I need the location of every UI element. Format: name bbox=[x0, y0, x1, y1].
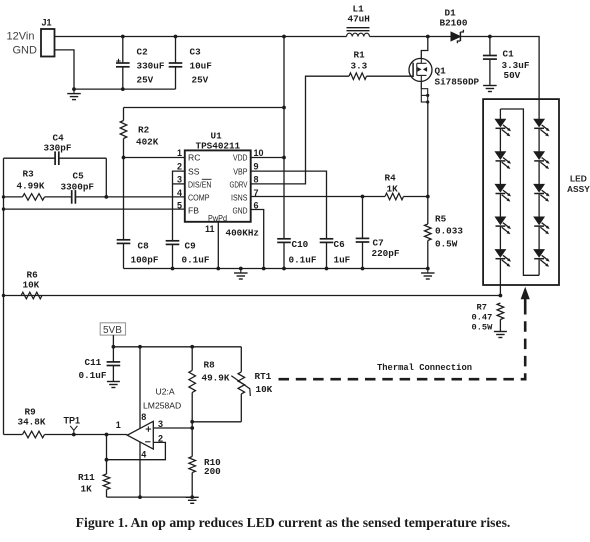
svg-text:GND: GND bbox=[233, 205, 248, 215]
wire input rail to VDD tap bbox=[123, 36, 284, 38]
capacitor C9 0.1uF bbox=[166, 240, 180, 242]
node R2 tap on VDD riser bbox=[282, 106, 286, 110]
wire L1 to Q1 drain node bbox=[370, 36, 428, 38]
ground at input bbox=[73, 89, 75, 94]
resistor R3 4.99K bbox=[4, 196, 23, 198]
svg-text:R1: R1 bbox=[354, 50, 366, 61]
svg-text:0.1uF: 0.1uF bbox=[79, 370, 107, 381]
thermistor RT1 10K bbox=[240, 347, 242, 372]
svg-text:C7: C7 bbox=[373, 238, 384, 249]
svg-text:C1: C1 bbox=[503, 49, 515, 60]
thermal connection dashed line bbox=[279, 312, 526, 379]
svg-text:C10: C10 bbox=[292, 239, 309, 250]
svg-text:25V: 25V bbox=[192, 75, 209, 86]
svg-text:9: 9 bbox=[254, 162, 259, 172]
capacitor C6 1uF bbox=[320, 238, 334, 240]
svg-text:1uF: 1uF bbox=[334, 255, 351, 266]
test point TP1 bbox=[72, 433, 76, 437]
svg-text:GND: GND bbox=[13, 45, 38, 57]
node R6 wire junction bbox=[2, 294, 5, 297]
svg-text:3: 3 bbox=[177, 175, 182, 185]
resistor R5 0.033 0.5W bbox=[425, 224, 432, 241]
resistor R8 49.9K bbox=[191, 347, 193, 371]
wire left column segment bbox=[499, 226, 501, 249]
svg-text:COMP: COMP bbox=[188, 193, 210, 203]
wire R3 to C5 bbox=[45, 196, 72, 198]
capacitor C2 (electrolytic) bbox=[116, 62, 130, 64]
capacitor C8 100pF bbox=[117, 239, 131, 241]
node R5/R4/Q1-source junction bbox=[426, 195, 430, 199]
svg-text:J1: J1 bbox=[42, 18, 52, 28]
svg-text:R2: R2 bbox=[138, 125, 150, 136]
resistor R4 1K bbox=[385, 193, 404, 200]
wire Q1 source to sense resistor bbox=[427, 102, 429, 224]
node R7/LED string junction bbox=[499, 294, 503, 298]
LED right column 3 bbox=[534, 184, 544, 192]
ground symbol under U1 bbox=[239, 267, 243, 271]
svg-text:LM258AD: LM258AD bbox=[143, 401, 181, 411]
capacitor C1 3.3uF 50V bbox=[489, 37, 491, 56]
wire FB sense line (R6 net) to LED cathode node bbox=[4, 295, 501, 297]
wire COMP line to U1 pin 4 bbox=[106, 196, 185, 198]
wire right column bottom to return loop bbox=[538, 259, 540, 276]
wire left column exit to R7 bbox=[499, 259, 501, 296]
svg-text:VDD: VDD bbox=[233, 153, 248, 163]
svg-text:1: 1 bbox=[177, 148, 182, 158]
svg-text:0.47: 0.47 bbox=[472, 313, 493, 323]
svg-text:RC: RC bbox=[188, 153, 200, 163]
wire op-amp pin 2 feedback loop bbox=[107, 442, 166, 459]
svg-text:1: 1 bbox=[116, 420, 121, 430]
wire Q1 drain to rail node bbox=[421, 37, 428, 59]
svg-text:Si7850DP: Si7850DP bbox=[435, 77, 480, 88]
node COMP network junction bbox=[104, 195, 108, 199]
svg-text:C2: C2 bbox=[137, 47, 149, 58]
svg-text:R8: R8 bbox=[204, 360, 216, 371]
LED left column 2 bbox=[495, 152, 505, 160]
label 5VB supply bbox=[100, 323, 125, 335]
LED right column 5 bbox=[534, 250, 544, 258]
wire op-amp output pin 1 bbox=[107, 434, 128, 436]
svg-text:0.033: 0.033 bbox=[435, 226, 463, 237]
ground rail under U1 bbox=[124, 268, 428, 270]
wire left column segment bbox=[499, 128, 501, 151]
wire LED return loop bbox=[500, 109, 539, 275]
svg-text:12Vin: 12Vin bbox=[7, 31, 35, 43]
LED left column 5 bbox=[495, 250, 505, 258]
wire ISNS pin 7 line bbox=[251, 196, 363, 198]
wire R2 to RC pin bbox=[123, 139, 125, 158]
wire VDD riser to pin 10 bbox=[283, 108, 285, 158]
resistor R10 200 bbox=[191, 428, 193, 457]
svg-text:0.5W: 0.5W bbox=[472, 323, 494, 333]
node op-amp V+ tap bbox=[138, 345, 142, 349]
svg-text:U2:A: U2:A bbox=[156, 387, 175, 397]
svg-text:49.9K: 49.9K bbox=[202, 373, 230, 384]
wire PwPd pin 11 to ground rail bbox=[217, 222, 219, 269]
svg-text:330uF: 330uF bbox=[137, 61, 165, 72]
svg-text:ISNS: ISNS bbox=[231, 193, 248, 203]
wire op-amp pin 8 supply bbox=[139, 347, 141, 429]
svg-text:3: 3 bbox=[158, 419, 163, 429]
svg-text:C5: C5 bbox=[73, 171, 85, 182]
wire left column segment bbox=[499, 161, 501, 184]
wire R8 node to op-amp + input node bbox=[191, 422, 193, 428]
node C1/output junction bbox=[488, 35, 492, 39]
node Q1-drain/L1/D1 junction bbox=[426, 35, 430, 39]
svg-text:220pF: 220pF bbox=[372, 248, 400, 259]
wire right LED string feed bbox=[538, 99, 540, 119]
svg-text:100pF: 100pF bbox=[131, 255, 159, 266]
svg-text:10: 10 bbox=[254, 148, 264, 158]
wire right column segment bbox=[538, 128, 540, 151]
LED left column 4 bbox=[495, 217, 505, 225]
ground symbol under R5 bbox=[427, 269, 429, 274]
wire input rail to L1 bbox=[284, 36, 347, 38]
LED assembly box bbox=[483, 99, 559, 285]
diode D1 (schottky B2100) bbox=[451, 32, 460, 41]
svg-text:SS: SS bbox=[188, 166, 200, 176]
svg-text:1K: 1K bbox=[387, 184, 399, 195]
svg-text:TP1: TP1 bbox=[64, 416, 81, 426]
svg-text:ASSY: ASSY bbox=[567, 184, 590, 194]
svg-text:C11: C11 bbox=[85, 357, 102, 368]
svg-text:4: 4 bbox=[141, 450, 146, 460]
svg-text:FB: FB bbox=[188, 205, 199, 215]
svg-text:C6: C6 bbox=[334, 239, 346, 250]
svg-text:4.99K: 4.99K bbox=[17, 181, 45, 192]
svg-text:C8: C8 bbox=[138, 241, 150, 252]
svg-text:R4: R4 bbox=[385, 173, 397, 184]
svg-text:3.3: 3.3 bbox=[351, 61, 368, 72]
LED right column 2 bbox=[534, 152, 544, 160]
svg-text:5VB: 5VB bbox=[103, 325, 122, 336]
svg-text:402K: 402K bbox=[136, 137, 159, 148]
ground under R10 bbox=[190, 495, 194, 499]
wire drain node to D1 anode bbox=[428, 36, 451, 38]
wire VBP pin 9 to C6 bbox=[251, 171, 327, 239]
wire op-amp bottom rail R11 to R10 ground bbox=[107, 496, 193, 498]
IC U1 TPS40211 bbox=[185, 150, 251, 221]
svg-text:Q1: Q1 bbox=[435, 66, 447, 77]
Q1 source pin block bbox=[421, 89, 427, 102]
capacitor C11 0.1uF bbox=[112, 347, 114, 362]
wire output node to LED assy feed bbox=[490, 37, 539, 100]
svg-text:R11: R11 bbox=[78, 472, 95, 483]
svg-text:34.8K: 34.8K bbox=[18, 417, 46, 428]
svg-text:LED: LED bbox=[570, 174, 587, 184]
wire GND pin 6 to ground rail bbox=[251, 210, 264, 269]
node RC/R2/C8 junction bbox=[122, 156, 126, 160]
capacitor C3 wire from rail bbox=[174, 35, 178, 39]
svg-text:47uH: 47uH bbox=[348, 14, 370, 25]
svg-text:EN: EN bbox=[202, 180, 212, 190]
svg-text:B2100: B2100 bbox=[440, 18, 468, 29]
capacitor C3 bbox=[169, 62, 183, 64]
svg-text:50V: 50V bbox=[504, 70, 521, 81]
svg-text:10K: 10K bbox=[23, 280, 40, 291]
svg-text:0.1uF: 0.1uF bbox=[289, 255, 317, 266]
wire D1 cathode to C1 node bbox=[460, 36, 490, 38]
svg-text:8: 8 bbox=[254, 175, 259, 185]
svg-text:TPS40211: TPS40211 bbox=[196, 141, 241, 152]
wire R2 feed bbox=[124, 107, 285, 109]
svg-text:10uF: 10uF bbox=[190, 61, 213, 72]
svg-text:GDRV: GDRV bbox=[230, 180, 248, 190]
wire op-amp pin 3 input bbox=[153, 427, 192, 429]
wire VDD riser from rail bbox=[282, 35, 286, 39]
wire left column segment bbox=[499, 194, 501, 217]
wire RT1 bottom to R8 node bbox=[192, 421, 241, 423]
svg-text:DIS/: DIS/ bbox=[188, 180, 202, 190]
node output/R9/R11 junction bbox=[105, 433, 109, 437]
resistor R6 10K bbox=[21, 292, 42, 299]
thermal connection arrow bbox=[524, 298, 527, 313]
LED right column 4 bbox=[534, 217, 544, 225]
svg-text:2: 2 bbox=[177, 162, 182, 172]
connector J1 bbox=[41, 29, 55, 57]
wire R1 to Q1 gate bbox=[367, 75, 414, 77]
svg-text:PwPd: PwPd bbox=[208, 213, 227, 223]
wire GDRV pin 8 to R1 bbox=[251, 76, 349, 184]
svg-text:Thermal Connection: Thermal Connection bbox=[377, 363, 472, 373]
node FB/R3 junction bbox=[2, 195, 5, 198]
wire right column segment bbox=[538, 226, 540, 249]
wire output node down to R11 bbox=[106, 435, 108, 460]
svg-text:200: 200 bbox=[204, 466, 221, 477]
wire VDD riser to C10 bbox=[283, 158, 285, 239]
svg-text:R7: R7 bbox=[477, 303, 487, 313]
wire 5VB to op-amp rail bbox=[112, 335, 114, 347]
wire ISNS to R4 bbox=[363, 196, 386, 198]
capacitor C7 220pF bbox=[362, 197, 364, 239]
resistor R2 402K bbox=[120, 121, 127, 139]
capacitor C4 330pF branch bbox=[4, 157, 56, 159]
resistor R11 1K bbox=[103, 474, 110, 490]
inductor L1 bbox=[347, 27, 370, 29]
svg-text:0.5W: 0.5W bbox=[435, 239, 458, 250]
svg-text:Figure 1. An op amp reduces LE: Figure 1. An op amp reduces LED current … bbox=[76, 515, 511, 530]
resistor R1 3.3 gate resistor bbox=[349, 73, 367, 80]
svg-text:RT1: RT1 bbox=[255, 371, 272, 382]
capacitor C2 wire from rail bbox=[121, 35, 125, 39]
LED right column 1 bbox=[534, 119, 544, 127]
svg-text:VBP: VBP bbox=[233, 166, 247, 176]
svg-text:0.1uF: 0.1uF bbox=[182, 255, 210, 266]
capacitor C10 0.1uF bbox=[277, 238, 291, 240]
node R8/RT1 junction bbox=[190, 420, 194, 424]
wire DIS/EN pin tie to SS bbox=[173, 183, 185, 185]
svg-text:C3: C3 bbox=[190, 47, 202, 58]
wire right column segment bbox=[538, 194, 540, 217]
wire right column segment bbox=[538, 161, 540, 184]
svg-text:330pF: 330pF bbox=[44, 143, 72, 154]
transistor Q1 Si7850DP MOSFET bbox=[409, 58, 432, 81]
wire left LED string top bbox=[499, 109, 501, 119]
LED left column 3 bbox=[495, 184, 505, 192]
node R8 top tap bbox=[190, 345, 194, 349]
capacitor C5 3300pF bbox=[71, 190, 73, 204]
node R5 bottom / ground rail end bbox=[426, 267, 430, 271]
node FB wire junction bbox=[2, 207, 5, 210]
left FB node vertical wire bbox=[3, 158, 5, 434]
node feedback/R11 junction bbox=[105, 458, 109, 462]
wire RC line to U1 pin 1 bbox=[124, 157, 185, 159]
wire SS pin to C9 bbox=[173, 171, 185, 241]
wire J1 pin2 (GND return) bbox=[55, 50, 176, 89]
op-amp U2:A LM258AD bbox=[127, 421, 153, 449]
resistor R9 34.8K bbox=[23, 431, 45, 438]
wire op-amp pin 4 to ground rail bbox=[139, 442, 141, 497]
node C7/ISNS junction bbox=[361, 195, 365, 199]
resistor R7 0.47 0.5W bbox=[497, 303, 504, 320]
wire R4 to sense node bbox=[404, 196, 428, 198]
svg-text:1K: 1K bbox=[81, 484, 93, 495]
svg-text:R5: R5 bbox=[435, 214, 447, 225]
svg-text:8: 8 bbox=[141, 412, 146, 422]
svg-text:C9: C9 bbox=[185, 241, 197, 252]
node op-amp + input junction bbox=[190, 426, 194, 430]
svg-text:11: 11 bbox=[205, 224, 215, 234]
LED left column 1 bbox=[495, 119, 505, 127]
svg-text:10K: 10K bbox=[256, 384, 273, 395]
svg-text:R3: R3 bbox=[23, 169, 35, 180]
svg-text:400KHz: 400KHz bbox=[226, 228, 259, 239]
wire Q1 source into source-pin block bbox=[420, 81, 422, 88]
wire J1 pin1 to input rail bbox=[55, 36, 123, 38]
svg-text:25V: 25V bbox=[137, 75, 154, 86]
wire C8 from RC node bbox=[123, 158, 125, 240]
wire output to TP1 and R9 bbox=[45, 434, 107, 436]
svg-text:3300pF: 3300pF bbox=[61, 182, 95, 193]
wire FB line to U1 pin 5 bbox=[4, 208, 185, 210]
